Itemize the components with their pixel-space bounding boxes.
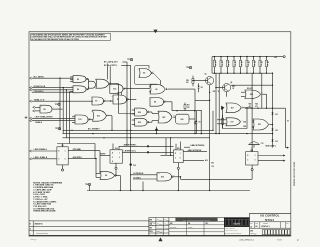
svg-text:E6: E6	[143, 73, 145, 75]
conversion chart grid	[169, 220, 224, 222]
wire BUS DONE out	[286, 147, 287, 149]
svg-text:E22: E22	[138, 122, 141, 124]
or-gate E6 latch	[139, 69, 152, 78]
wire E20 out	[261, 93, 266, 95]
svg-text:E13: E13	[97, 115, 100, 117]
svg-text:R19: R19	[213, 91, 216, 93]
nand-gate E19	[157, 173, 172, 182]
wire Q2 base	[216, 87, 225, 89]
wire vertical x63	[62, 88, 64, 134]
wire long vertical x130	[130, 65, 132, 190]
svg-text:R25: R25	[249, 104, 252, 106]
or-gate E13	[93, 110, 107, 121]
wire E12 out	[124, 88, 150, 90]
svg-text:Q1: Q1	[205, 74, 207, 76]
svg-text:1K: 1K	[232, 88, 234, 90]
svg-text:1K: 1K	[260, 65, 262, 67]
wire E22b out	[148, 121, 152, 123]
svg-text:L B BRST CLK L: L B BRST CLK L	[124, 150, 136, 152]
input CTRL ADR H	[30, 89, 32, 91]
svg-text:B19: B19	[243, 126, 246, 128]
wire E7a out	[104, 100, 110, 102]
wire E23 out	[173, 116, 176, 118]
svg-text:E3: E3	[105, 175, 107, 177]
svg-text:2N3639: 2N3639	[188, 227, 193, 229]
svg-text:R9: R9	[241, 62, 243, 64]
svg-text:1K: 1K	[218, 91, 220, 93]
svg-text:1K: 1K	[247, 65, 249, 67]
bottom zone tick arrow	[158, 237, 162, 241]
svg-text:DIST: DIST	[250, 230, 253, 232]
wire E17b inputs	[217, 119, 226, 121]
wire +5V row y108	[245, 107, 286, 109]
wire vertical x180 short	[180, 177, 182, 180]
wire drop x262	[261, 73, 263, 108]
resistor R8 pull-up	[233, 57, 235, 61]
svg-text:D: D	[58, 151, 59, 153]
svg-text:TRANS ARE DEC3639B: TRANS ARE DEC3639B	[33, 210, 56, 213]
svg-text:DEC: DEC	[170, 223, 173, 225]
wire latch loop	[135, 66, 158, 85]
wire E10 out	[110, 83, 119, 85]
wire latch out diagonal	[153, 73, 160, 81]
copyright notice box	[31, 33, 110, 40]
svg-text:TP1: TP1	[127, 59, 130, 61]
resistor R9 pull-up	[240, 57, 242, 61]
input L BUS IN BB/BL A	[30, 150, 32, 152]
svg-text:D: D	[175, 153, 176, 155]
input stub to E8 pin1	[33, 106, 35, 108]
svg-text:R7: R7	[228, 62, 230, 64]
flip-flop E14	[110, 150, 122, 163]
resistor R20	[192, 79, 194, 84]
wire Q2 emitter down	[226, 92, 228, 97]
wire E22a out	[148, 111, 152, 113]
microfilm square strip	[262, 230, 264, 235]
wire Q1 base	[193, 80, 208, 82]
nand-gate E9b	[73, 86, 86, 93]
svg-text:DEC: DEC	[205, 223, 208, 225]
node junction y100	[195, 99, 210, 101]
svg-text:R21: R21	[187, 104, 190, 106]
wire E7b top stubs	[117, 92, 119, 95]
node blob E17a input	[221, 106, 224, 110]
or-gate E5	[150, 84, 165, 94]
wire vertical x201	[200, 111, 202, 134]
svg-text:E16: E16	[181, 119, 184, 121]
svg-text:C: C	[175, 158, 176, 160]
left margin zone tick	[25, 117, 28, 119]
wire bank left drop	[211, 57, 213, 74]
svg-text:C15: C15	[261, 143, 264, 145]
diode D8	[198, 86, 200, 88]
or-gate E17b	[226, 118, 241, 126]
svg-text:TP2: TP2	[55, 128, 58, 130]
wire vertical x100	[99, 151, 101, 174]
and-gate E10	[89, 81, 96, 88]
wire E30 top pin	[251, 147, 253, 151]
wire E21 out	[269, 124, 272, 126]
wire drop x216 to trunk	[215, 73, 217, 133]
svg-text:D12: D12	[275, 130, 278, 132]
wire trunk y190.5	[87, 190, 250, 192]
svg-text:SIZE: SIZE	[250, 223, 253, 225]
wire E7b out	[127, 98, 136, 100]
wire drop x252 to FF E30 preset	[251, 73, 253, 152]
svg-text:E20: E20	[250, 94, 253, 96]
diode column D11 D12 D13	[272, 73, 274, 147]
wire latch top pin	[148, 66, 150, 69]
svg-text:R26: R26	[255, 104, 258, 106]
svg-text:1K: 1K	[221, 65, 223, 67]
wire vertical x107	[106, 64, 108, 80]
svg-text:D9: D9	[199, 122, 201, 124]
wire E9b input stub	[70, 91, 73, 93]
svg-text:E9: E9	[77, 79, 79, 81]
svg-text:R20: R20	[186, 80, 189, 82]
nand-gate E7b	[113, 95, 127, 104]
svg-text:R12: R12	[260, 62, 263, 64]
input L BUS L IN BB/L B	[30, 158, 32, 160]
conversion chart header	[176, 218, 218, 221]
input T ANBL CC H	[30, 100, 32, 102]
flip-flop E30	[246, 152, 258, 165]
title block top line left	[149, 217, 250, 219]
input BCT H ANBL+MSYN B	[30, 117, 32, 119]
svg-text:C16: C16	[211, 166, 214, 168]
svg-text:BC L STROBE H: BC L STROBE H	[88, 129, 100, 131]
wire trunk y137.8	[63, 137, 210, 139]
wire bank bottom bus	[212, 72, 272, 74]
DEC digital logo	[224, 218, 249, 227]
wire vertical x120	[119, 175, 121, 190]
wire E15 input	[161, 154, 174, 156]
svg-text:REV: REV	[286, 223, 289, 225]
resistor R24	[222, 118, 224, 124]
wire E13 out	[107, 115, 113, 117]
svg-text:1K: 1K	[228, 65, 230, 67]
svg-text:R6: R6	[221, 62, 223, 64]
svg-text:1K: 1K	[287, 120, 289, 122]
wire row y143.5	[57, 143, 95, 145]
title area top line	[250, 212, 291, 214]
wire E17 loop bottom	[223, 128, 248, 130]
wire E4 out	[164, 101, 172, 103]
wire vertical x166	[165, 138, 167, 156]
svg-text:R11: R11	[254, 62, 257, 64]
border frame	[29, 32, 291, 236]
nand-gate E9a	[73, 76, 86, 83]
svg-text:TP3: TP3	[55, 104, 58, 106]
svg-text:CHK: CHK	[149, 224, 152, 226]
resistor R7 pull-up	[227, 57, 229, 61]
svg-text:PROJ: PROJ	[149, 231, 153, 233]
wire E3 inputs	[96, 172, 100, 174]
buffer E16	[176, 114, 189, 124]
svg-text:1K: 1K	[241, 65, 243, 67]
wire vertical x213	[212, 111, 214, 131]
svg-text:D11: D11	[275, 114, 278, 116]
transistor Q1	[206, 77, 214, 85]
wire E2 clock pin	[62, 165, 64, 169]
nand-gate E13b	[75, 115, 88, 124]
wire E2 out INTR ANBL	[68, 150, 100, 152]
wire vertical x127	[126, 62, 128, 146]
svg-text:R13: R13	[267, 62, 270, 64]
nand-gate E22a	[135, 108, 147, 116]
number row grid	[250, 221, 291, 223]
svg-text:E8: E8	[44, 109, 46, 111]
and-gate E21 oneshot	[253, 119, 269, 130]
svg-text:330: 330	[187, 107, 190, 109]
or-gate E17a	[226, 103, 241, 113]
svg-text:R5: R5	[215, 62, 217, 64]
wire E14 clock pin	[115, 163, 117, 167]
svg-text:D: D	[247, 155, 248, 157]
wire Q2 collector row	[231, 84, 273, 86]
svg-text:1K: 1K	[234, 65, 236, 67]
wire E5 out arrow	[166, 88, 168, 90]
wire vertical x110	[109, 66, 111, 84]
nand-gate E4	[150, 98, 164, 107]
svg-text:ENG: ENG	[149, 228, 152, 230]
wire +5V top bus	[212, 56, 277, 58]
input T ANBL B	[30, 120, 32, 122]
resistor R13 pull-up	[266, 57, 268, 61]
wire E16 out	[189, 118, 195, 120]
wire E20 inputs	[241, 91, 245, 93]
wire E9a input stubs	[70, 76, 73, 78]
wire row y146.3	[119, 145, 174, 147]
wire E14 out q	[122, 151, 173, 153]
wire trunk y133.6	[63, 133, 273, 135]
resistor R6 pull-up	[220, 57, 222, 61]
svg-text:DEC3639B: DEC3639B	[170, 227, 176, 229]
svg-text:M7821: M7821	[265, 219, 274, 222]
top zone tick arrow	[153, 30, 157, 34]
resistor R10 pull-up	[246, 57, 248, 61]
input stub to E8 pin2	[33, 110, 35, 112]
svg-text:E23: E23	[162, 117, 165, 119]
svg-text:I/O CONTROL: I/O CONTROL	[260, 214, 280, 218]
svg-text:TP6: TP6	[186, 67, 189, 69]
capacitor C15 dome	[249, 142, 260, 145]
wire E2 top pin	[62, 144, 64, 147]
flip-flop E2	[57, 147, 68, 165]
wire E22 input stubs	[132, 109, 135, 111]
handwritten corner mark	[30, 238, 36, 241]
wire vertical x170	[170, 138, 172, 156]
wire vertical x96	[95, 159, 97, 178]
svg-text:E13: E13	[79, 119, 82, 121]
nor-gate E3	[100, 172, 115, 180]
svg-text:M7821-0-1: M7821-0-1	[261, 226, 269, 228]
resistor R11 pull-up	[253, 57, 255, 61]
resistor R5 pull-up	[214, 57, 216, 61]
wire E9a out	[87, 78, 89, 80]
wire E8 output	[52, 108, 63, 110]
wire E17a out	[242, 107, 252, 109]
wire E3 out	[116, 174, 121, 176]
wire into E22 a	[119, 113, 135, 115]
svg-text:C: C	[58, 158, 59, 160]
svg-text:R10: R10	[247, 62, 250, 64]
wire Q1 collector down	[209, 85, 211, 101]
logo right separator	[249, 213, 251, 235]
wire E19 out	[172, 176, 180, 178]
svg-text:Q2: Q2	[230, 82, 232, 84]
wire E15 clock pin	[177, 163, 179, 168]
transistor Q2	[223, 84, 231, 92]
svg-text:A-ML-M7821-0-1: A-ML-M7821-0-1	[238, 239, 254, 241]
node x156 blob	[156, 127, 158, 134]
wire vertical x195 w diode D7	[194, 89, 196, 134]
wire vertical x66	[65, 90, 67, 138]
resistor R12 pull-up	[259, 57, 261, 61]
svg-text:E9: E9	[77, 89, 79, 91]
svg-text:L BUS L IN BB/L B: L BUS L IN BB/L B	[34, 157, 48, 159]
svg-text:E12: E12	[113, 88, 116, 90]
signature table	[155, 218, 157, 236]
wire E30 clock pin	[251, 165, 253, 169]
svg-text:PRINTED CIRCUIT REV M7821: PRINTED CIRCUIT REV M7821	[294, 162, 296, 186]
diode D9	[195, 111, 197, 121]
svg-text:CODE: CODE	[255, 223, 258, 225]
svg-text:E15: E15	[177, 148, 180, 150]
wire vertical x60	[59, 78, 61, 130]
wire long vertical x209	[209, 100, 211, 190]
wire h y110.7	[172, 110, 202, 112]
nand-gate E7a	[92, 97, 104, 105]
wire E15 top pins	[175, 144, 177, 150]
svg-text:R8: R8	[234, 62, 236, 64]
wire E14 top pins	[112, 144, 114, 150]
svg-text:E17: E17	[231, 108, 234, 110]
wire E15 out rows	[183, 150, 207, 152]
svg-text:D8: D8	[201, 87, 203, 89]
svg-text:E7: E7	[95, 101, 97, 103]
svg-text:E7: E7	[117, 99, 119, 101]
revision mark right	[150, 222, 156, 223]
svg-text:E5: E5	[155, 89, 157, 91]
svg-text:E17: E17	[231, 122, 234, 124]
or-gate E23	[158, 111, 172, 123]
nand-gate E12	[110, 84, 123, 93]
svg-text:E22: E22	[138, 112, 141, 114]
or-gate E10b	[96, 79, 109, 88]
svg-text:BC L MSYN L: BC L MSYN L	[34, 76, 45, 78]
svg-text:E15: E15	[133, 165, 136, 167]
revision table	[29, 220, 149, 222]
wire trunk y130.3	[63, 129, 214, 131]
svg-text:DRN: DRN	[149, 219, 152, 221]
wire E17 loop left	[222, 109, 224, 129]
svg-text:E19: E19	[161, 176, 164, 178]
svg-text:digital: digital	[233, 223, 240, 226]
or-gate E20	[245, 90, 261, 99]
wire drop x219 to trunk	[218, 73, 220, 133]
heavy bottom border line	[29, 235, 291, 237]
svg-text:NUMBER: NUMBER	[263, 223, 268, 225]
wire vertical x143	[142, 182, 144, 191]
input row y92	[32, 91, 73, 93]
wire E30 out 1	[258, 155, 283, 157]
svg-text:S: S	[112, 161, 113, 163]
wire vertical x70	[69, 92, 71, 143]
wire vertical x118	[118, 84, 120, 114]
wire E13b input stubs	[72, 116, 75, 118]
flip-flop E15	[174, 150, 184, 163]
svg-text:BUS INTR B: BUS INTR B	[73, 157, 83, 159]
wire E13b out	[89, 119, 93, 121]
title block logo separator	[223, 218, 225, 236]
svg-text:T ANBL CC H: T ANBL CC H	[34, 98, 45, 101]
svg-text:R22: R22	[232, 86, 235, 88]
svg-text:E21: E21	[258, 124, 261, 126]
nand-gate E22b	[135, 118, 147, 126]
wire vertical x285 to BUS DONE	[285, 108, 287, 147]
svg-text:E Q U I P M E N T: E Q U I P M E N T	[225, 228, 235, 230]
svg-text:1K: 1K	[254, 65, 256, 67]
svg-text:C: C	[247, 159, 248, 161]
and-gate E8	[40, 105, 52, 113]
wire E17 loop right	[246, 108, 248, 129]
title block left border	[148, 218, 150, 236]
input ADR 16 H B	[30, 87, 32, 89]
wire vertical x95	[94, 144, 96, 159]
input BC L MSYN L	[30, 77, 32, 79]
resistor R21	[184, 103, 186, 105]
wire E2 out BUS INTR B	[68, 158, 96, 160]
wire E30 out 0	[258, 160, 283, 162]
svg-text:D13: D13	[275, 141, 278, 143]
wire E9b out	[87, 88, 89, 90]
svg-text:1K: 1K	[215, 65, 217, 67]
wire row y179.3	[181, 178, 253, 180]
svg-text:B15: B15	[211, 162, 214, 164]
svg-text:BUS DONE L: BUS DONE L	[266, 145, 276, 147]
svg-text:1K: 1K	[267, 65, 269, 67]
